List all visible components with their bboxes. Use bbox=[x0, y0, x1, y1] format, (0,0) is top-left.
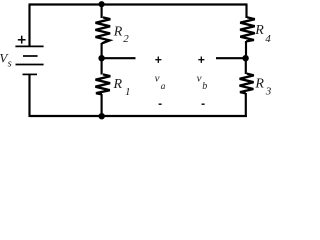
svg-text:1: 1 bbox=[125, 86, 131, 98]
svg-text:R: R bbox=[113, 77, 123, 92]
junction node bottom middle bbox=[99, 113, 105, 119]
plus polarity mark of va bbox=[155, 57, 161, 63]
wire left side bottom (Vs negative lead) bbox=[28, 75, 30, 118]
wire R2 bottom lead bbox=[101, 43, 103, 58]
wire node a horizontal stub bbox=[102, 57, 136, 59]
wire node b horizontal stub bbox=[216, 57, 246, 59]
svg-text:4: 4 bbox=[265, 33, 271, 45]
voltage source Vs (battery plates) bbox=[15, 46, 43, 74]
wire top rail bbox=[29, 3, 248, 5]
wire R4 bottom lead bbox=[245, 41, 247, 58]
svg-text:v: v bbox=[197, 73, 202, 85]
resistor R4 zigzag bbox=[240, 17, 255, 41]
minus polarity mark of va bbox=[159, 103, 162, 105]
junction node a (middle left) bbox=[98, 55, 104, 61]
svg-text:3: 3 bbox=[265, 85, 271, 97]
resistor R1 zigzag bbox=[95, 74, 110, 94]
svg-text:v: v bbox=[155, 73, 160, 85]
resistor R2 zigzag bbox=[95, 17, 110, 43]
svg-text:a: a bbox=[161, 82, 166, 92]
svg-text:s: s bbox=[8, 58, 12, 69]
wire right side top (R4 top lead) bbox=[245, 5, 247, 19]
minus polarity mark of vb bbox=[202, 103, 205, 105]
plus polarity mark of Vs bbox=[18, 36, 26, 44]
wire R1 top lead bbox=[101, 58, 103, 74]
wire R3 bottom lead bbox=[245, 93, 247, 117]
resistor R3 zigzag bbox=[240, 74, 254, 94]
wire bottom rail bbox=[30, 115, 247, 117]
wire R3 top lead bbox=[245, 58, 247, 74]
svg-text:R: R bbox=[254, 76, 264, 91]
plus polarity mark of vb bbox=[198, 57, 204, 63]
svg-text:b: b bbox=[202, 81, 207, 92]
wire R1 bottom lead bbox=[101, 94, 103, 116]
junction node at top of R2 bbox=[99, 1, 105, 7]
junction node b (middle right) bbox=[242, 55, 248, 61]
wire R2 top lead bbox=[101, 5, 103, 19]
svg-text:2: 2 bbox=[123, 33, 129, 45]
svg-text:R: R bbox=[254, 23, 264, 38]
wire left side top (Vs positive lead) bbox=[28, 5, 30, 47]
svg-text:R: R bbox=[113, 24, 123, 39]
